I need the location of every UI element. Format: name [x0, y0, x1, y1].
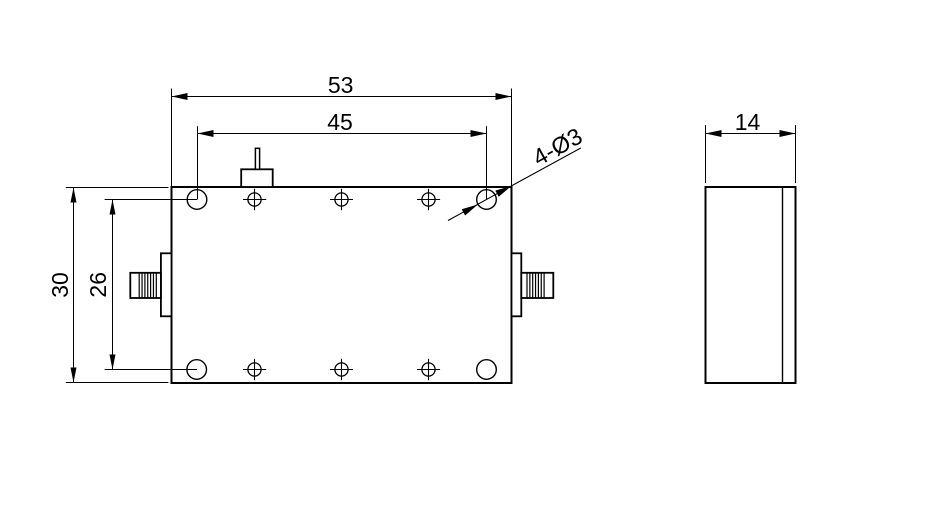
dimension 14 extension lines — [706, 125, 796, 183]
dimension 53 arrowheads — [172, 93, 188, 100]
left SMA connector flange — [161, 253, 172, 316]
dimension 45 line — [198, 133, 487, 135]
corner mounting hole top-right — [477, 190, 497, 210]
dimension 45 arrowheads — [198, 130, 214, 137]
svg-text:26: 26 — [85, 272, 111, 298]
side view body outline — [706, 187, 796, 383]
screw hole top-1 with crosshair — [243, 189, 266, 210]
feedthrough capacitor pin — [255, 148, 259, 169]
dimension 26 extension lines — [105, 200, 197, 370]
screw hole top-2 with crosshair — [330, 189, 353, 210]
dimension 30 arrowheads — [71, 188, 77, 203]
dimension 30 extension lines — [66, 188, 169, 383]
dimension 26 arrowheads — [110, 200, 116, 215]
corner mounting hole bottom-left — [187, 360, 207, 380]
svg-text:53: 53 — [328, 72, 354, 98]
dimension 26 line — [112, 200, 114, 370]
hole diameter leader line 4-O3 — [448, 148, 581, 221]
svg-text:14: 14 — [735, 109, 761, 135]
left SMA connector threads — [139, 273, 156, 298]
dimension 14 line — [706, 133, 796, 135]
dimension 53 extension lines — [172, 89, 512, 188]
dimension 14 arrowheads — [706, 130, 722, 137]
screw hole bottom-1 with crosshair — [243, 359, 266, 380]
screw hole bottom-3 with crosshair — [417, 359, 440, 380]
svg-text:30: 30 — [47, 272, 73, 298]
corner mounting hole bottom-right — [477, 360, 497, 380]
right SMA connector threads — [527, 273, 544, 298]
right SMA connector flange — [512, 253, 522, 316]
screw hole top-3 with crosshair — [417, 189, 440, 210]
corner mounting hole top-left — [187, 190, 207, 210]
leader arrowhead at box corner — [495, 186, 511, 197]
dimension 45 extension lines — [198, 126, 487, 199]
leader arrowhead at hole edge — [462, 205, 478, 216]
svg-text:45: 45 — [327, 109, 353, 135]
feedthrough capacitor base on top — [241, 169, 273, 187]
right SMA connector barrel — [521, 273, 553, 298]
screw hole bottom-2 with crosshair — [330, 359, 353, 380]
dimension 53 line — [172, 96, 512, 98]
left SMA connector barrel — [130, 273, 161, 298]
dimension 30 line — [73, 188, 75, 383]
enclosure body outline (front view) — [172, 187, 512, 383]
side view lid parting line — [782, 187, 784, 383]
